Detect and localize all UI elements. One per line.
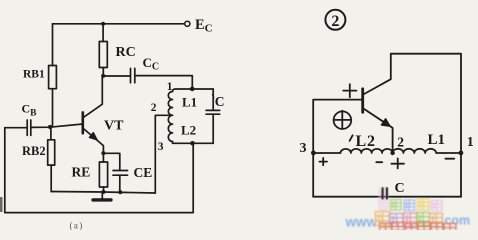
polarity minus below node1 [445, 158, 454, 160]
svg-text:2: 2 [397, 135, 404, 150]
svg-text:3: 3 [300, 141, 307, 156]
polarity plus at base [343, 84, 356, 97]
ground [93, 192, 111, 200]
capacitor CC [103, 68, 135, 82]
svg-text:L2: L2 [356, 133, 376, 150]
svg-text:C: C [395, 181, 405, 196]
terminal EC [185, 21, 190, 26]
node emitter junction [101, 151, 105, 155]
capacitor CB [5, 120, 31, 135]
wire right frame (left vertical + base line) [313, 100, 362, 197]
wire bottom rail [313, 196, 461, 198]
svg-text:RB2: RB2 [22, 144, 46, 158]
svg-text:1: 1 [467, 135, 474, 150]
node RC top junction [101, 22, 105, 26]
svg-text:RB1: RB1 [23, 69, 45, 81]
capacitor C tank [206, 89, 220, 143]
resistor RB2 [48, 127, 55, 192]
node RE bottom junction [101, 190, 105, 194]
wire ground rail [51, 192, 155, 194]
tick before C tank [212, 94, 214, 98]
resistor RE [99, 153, 107, 192]
node 2 [390, 151, 394, 155]
resistor RC [99, 24, 107, 76]
svg-text:RC: RC [116, 45, 136, 60]
label circled 2 [325, 10, 345, 30]
watermark big glyph row [376, 212, 390, 226]
svg-text:L1: L1 [428, 132, 446, 148]
node 3 [311, 151, 316, 156]
svg-text:(a): (a) [70, 221, 84, 230]
svg-text:L1: L1 [182, 95, 197, 110]
watermark small glyph row [391, 200, 402, 211]
tick before L2 [350, 135, 353, 141]
resistor RB1 [49, 24, 57, 127]
polarity plus below node3 [319, 158, 327, 165]
node 1 [459, 151, 464, 156]
transistor VT [83, 76, 104, 153]
inductor L2 [168, 115, 172, 141]
transistor (right) [363, 89, 393, 153]
node base junction [48, 125, 52, 129]
svg-text:CE: CE [134, 165, 153, 180]
svg-text:RE: RE [72, 164, 91, 179]
node collector junction [101, 74, 105, 78]
watermark [345, 187, 471, 236]
wire tank top [173, 89, 214, 92]
wire collector loop (riser, top, right side) [363, 54, 461, 197]
inductor L1 (right) [393, 149, 462, 153]
node tank top junction [190, 87, 195, 92]
wire outer loop (left edge, bottom, riser to tank) [5, 128, 193, 213]
inductor L2 (right) [313, 149, 392, 153]
polarity minus left of node2 [376, 161, 382, 163]
watermark pink smear [378, 187, 389, 212]
inductor L1 [168, 92, 172, 116]
polarity plus below node2 [391, 158, 404, 168]
wire coupling to tank node1 [135, 76, 193, 89]
svg-text:L2: L2 [181, 123, 196, 138]
capacitor C (right, on bottom rail) [383, 188, 387, 198]
svg-text:2: 2 [331, 13, 339, 30]
wire base line [31, 124, 83, 127]
svg-text:www: www [345, 215, 378, 230]
svg-text:3: 3 [158, 141, 164, 153]
wire tank bottom [173, 142, 214, 144]
svg-text:VT: VT [104, 119, 124, 134]
capacitor C (right) plates redrawn over smear [383, 188, 387, 198]
svg-text:C: C [215, 94, 225, 109]
phase symbol circled plus [334, 111, 352, 129]
wire tap node2 drop [155, 115, 169, 193]
svg-text:1: 1 [167, 81, 173, 93]
svg-text:2: 2 [151, 102, 157, 114]
capacitor CE [103, 153, 127, 192]
wire top supply rail [53, 23, 185, 25]
node CE bottom junction [118, 190, 122, 194]
node tank bottom junction [190, 141, 195, 146]
watermark bottom red glyph row [380, 223, 392, 235]
